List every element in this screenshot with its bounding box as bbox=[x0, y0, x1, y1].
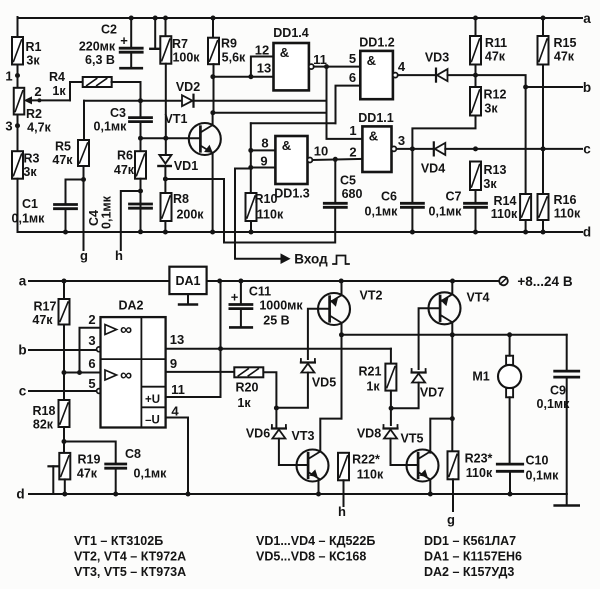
svg-text:R21: R21 bbox=[359, 365, 382, 379]
svg-text:8: 8 bbox=[261, 136, 268, 151]
svg-text:R15: R15 bbox=[554, 36, 577, 50]
svg-text:R12: R12 bbox=[484, 88, 507, 102]
svg-text:11: 11 bbox=[171, 382, 185, 397]
svg-text:R9: R9 bbox=[221, 37, 237, 51]
svg-text:R3: R3 bbox=[24, 152, 40, 166]
svg-text:VT5: VT5 bbox=[401, 432, 424, 446]
svg-text:–U: –U bbox=[145, 415, 160, 427]
svg-text:VD1...VD4 – КД522Б: VD1...VD4 – КД522Б bbox=[256, 534, 375, 548]
svg-text:g: g bbox=[447, 512, 455, 527]
svg-text:C5: C5 bbox=[340, 174, 356, 188]
svg-text:R5: R5 bbox=[55, 140, 71, 154]
svg-text:R1: R1 bbox=[26, 40, 42, 54]
svg-text:C9: C9 bbox=[550, 384, 566, 398]
svg-text:1к: 1к bbox=[366, 380, 380, 394]
svg-text:R19: R19 bbox=[78, 453, 101, 467]
svg-text:VD7: VD7 bbox=[420, 386, 444, 400]
svg-text:12: 12 bbox=[255, 43, 269, 58]
svg-text:c: c bbox=[583, 142, 591, 157]
svg-text:25 В: 25 В bbox=[263, 314, 289, 328]
svg-text:a: a bbox=[583, 11, 591, 26]
svg-text:C11: C11 bbox=[249, 285, 271, 299]
svg-text:+: + bbox=[120, 33, 128, 48]
svg-text:DD1.3: DD1.3 bbox=[274, 187, 309, 201]
svg-text:0,1мк: 0,1мк bbox=[537, 397, 571, 411]
svg-text:g: g bbox=[80, 248, 88, 263]
svg-text:+U: +U bbox=[145, 394, 160, 406]
svg-text:DD1 – К561ЛА7: DD1 – К561ЛА7 bbox=[424, 534, 516, 548]
svg-text:47к: 47к bbox=[554, 50, 575, 64]
svg-text:2: 2 bbox=[34, 84, 41, 99]
svg-text:+8...24 В: +8...24 В bbox=[517, 274, 572, 289]
svg-text:d: d bbox=[16, 487, 24, 502]
svg-text:VD2: VD2 bbox=[176, 80, 200, 94]
svg-text:VT1 – КТ3102Б: VT1 – КТ3102Б bbox=[74, 534, 163, 548]
svg-text:M1: M1 bbox=[472, 370, 489, 384]
svg-text:b: b bbox=[583, 80, 591, 95]
svg-text:c: c bbox=[19, 384, 27, 399]
svg-text:DA2 – К157УД3: DA2 – К157УД3 bbox=[424, 565, 514, 579]
svg-text:VD4: VD4 bbox=[421, 162, 445, 176]
svg-text:R20: R20 bbox=[236, 381, 259, 395]
svg-text:VD8: VD8 bbox=[357, 427, 381, 441]
svg-text:R10: R10 bbox=[255, 192, 278, 206]
svg-text:VT3: VT3 bbox=[292, 429, 315, 443]
svg-text:680: 680 bbox=[342, 187, 363, 201]
svg-text:R18: R18 bbox=[33, 404, 56, 418]
svg-text:4: 4 bbox=[171, 404, 179, 419]
svg-text:R7: R7 bbox=[172, 37, 188, 51]
svg-text:4,7к: 4,7к bbox=[27, 121, 51, 135]
svg-text:R8: R8 bbox=[173, 192, 189, 206]
svg-text:9: 9 bbox=[260, 154, 267, 169]
svg-text:DA1 – К1157ЕН6: DA1 – К1157ЕН6 bbox=[424, 550, 522, 564]
svg-text:R13: R13 bbox=[484, 163, 507, 177]
svg-text:110к: 110к bbox=[357, 468, 384, 482]
svg-text:3к: 3к bbox=[23, 165, 37, 179]
svg-text:C8: C8 bbox=[125, 447, 141, 461]
svg-text:R22*: R22* bbox=[352, 453, 380, 467]
svg-text:VD5: VD5 bbox=[312, 376, 336, 390]
svg-text:82к: 82к bbox=[33, 418, 54, 432]
svg-text:DA1: DA1 bbox=[175, 274, 200, 288]
svg-text:110к: 110к bbox=[491, 207, 518, 221]
svg-text:&: & bbox=[282, 138, 291, 153]
svg-text:110к: 110к bbox=[466, 466, 493, 480]
svg-text:110к: 110к bbox=[554, 207, 581, 221]
svg-text:R14: R14 bbox=[494, 194, 517, 208]
svg-text:5: 5 bbox=[349, 51, 356, 66]
svg-text:a: a bbox=[19, 274, 27, 289]
svg-text:47к: 47к bbox=[77, 467, 98, 481]
svg-text:R17: R17 bbox=[34, 300, 57, 314]
svg-text:9: 9 bbox=[170, 356, 177, 371]
svg-text:∞: ∞ bbox=[120, 366, 132, 385]
svg-text:h: h bbox=[115, 248, 123, 263]
svg-text:6,3 В: 6,3 В bbox=[85, 53, 115, 67]
svg-text:VT3, VT5 – КТ973А: VT3, VT5 – КТ973А bbox=[74, 565, 186, 579]
svg-text:1000мк: 1000мк bbox=[259, 299, 303, 313]
svg-text:&: & bbox=[280, 45, 289, 60]
svg-text:6: 6 bbox=[88, 356, 95, 371]
svg-text:VD6: VD6 bbox=[246, 427, 270, 441]
svg-text:13: 13 bbox=[257, 61, 271, 76]
svg-text:VT2, VT4 – КТ972А: VT2, VT4 – КТ972А bbox=[74, 550, 186, 564]
svg-text:200к: 200к bbox=[176, 208, 204, 222]
svg-text:47к: 47к bbox=[485, 50, 506, 64]
svg-text:11: 11 bbox=[313, 52, 327, 67]
svg-text:220мк: 220мк bbox=[79, 40, 116, 54]
svg-text:∞: ∞ bbox=[120, 320, 132, 339]
svg-text:1: 1 bbox=[5, 69, 12, 84]
svg-text:0,1мк: 0,1мк bbox=[94, 120, 128, 134]
svg-text:VT1: VT1 bbox=[165, 112, 188, 126]
svg-text:VD3: VD3 bbox=[425, 51, 449, 65]
svg-text:1к: 1к bbox=[237, 396, 251, 410]
svg-text:0,1мк: 0,1мк bbox=[365, 205, 399, 219]
svg-text:47к: 47к bbox=[32, 313, 53, 327]
svg-text:2: 2 bbox=[88, 312, 95, 327]
svg-text:DA2: DA2 bbox=[118, 299, 143, 313]
svg-text:R11: R11 bbox=[485, 36, 507, 50]
svg-text:3: 3 bbox=[88, 333, 95, 348]
svg-text:3к: 3к bbox=[26, 54, 40, 68]
svg-text:VT4: VT4 bbox=[467, 291, 490, 305]
svg-text:C3: C3 bbox=[110, 106, 126, 120]
svg-text:+: + bbox=[231, 290, 239, 305]
svg-text:13: 13 bbox=[170, 332, 184, 347]
svg-text:&: & bbox=[369, 128, 378, 143]
svg-text:b: b bbox=[18, 343, 26, 358]
svg-text:47к: 47к bbox=[114, 163, 135, 177]
svg-text:100к: 100к bbox=[172, 51, 200, 65]
svg-text:VD5...VD8 – КС168: VD5...VD8 – КС168 bbox=[256, 550, 366, 564]
svg-text:0,1мк: 0,1мк bbox=[134, 467, 168, 481]
svg-text:R6: R6 bbox=[117, 149, 133, 163]
svg-text:3: 3 bbox=[398, 133, 405, 148]
svg-text:0,1мк: 0,1мк bbox=[100, 195, 114, 229]
svg-text:Вход: Вход bbox=[294, 252, 328, 267]
svg-text:DD1.1: DD1.1 bbox=[358, 111, 393, 125]
svg-text:3: 3 bbox=[5, 119, 12, 134]
svg-text:2: 2 bbox=[349, 145, 356, 160]
svg-text:0,1мк: 0,1мк bbox=[12, 212, 46, 226]
svg-text:47к: 47к bbox=[52, 153, 73, 167]
svg-text:0,1мк: 0,1мк bbox=[526, 469, 560, 483]
svg-text:VD1: VD1 bbox=[174, 159, 198, 173]
svg-text:R4: R4 bbox=[49, 70, 65, 84]
svg-text:C6: C6 bbox=[381, 190, 397, 204]
svg-text:110к: 110к bbox=[257, 208, 284, 222]
svg-text:C1: C1 bbox=[22, 197, 38, 211]
svg-text:&: & bbox=[367, 53, 376, 68]
svg-text:3к: 3к bbox=[484, 102, 498, 116]
svg-text:R2: R2 bbox=[26, 107, 42, 121]
svg-text:h: h bbox=[338, 504, 346, 519]
svg-text:6: 6 bbox=[349, 70, 356, 85]
svg-text:DD1.4: DD1.4 bbox=[273, 26, 308, 40]
svg-text:0,1мк: 0,1мк bbox=[429, 205, 463, 219]
svg-text:1к: 1к bbox=[52, 84, 66, 98]
svg-text:4: 4 bbox=[398, 59, 406, 74]
svg-text:d: d bbox=[583, 225, 591, 240]
svg-text:R16: R16 bbox=[554, 193, 577, 207]
svg-text:VT2: VT2 bbox=[360, 289, 383, 303]
svg-text:10: 10 bbox=[314, 144, 328, 159]
svg-text:5,6к: 5,6к bbox=[222, 51, 246, 65]
svg-text:1: 1 bbox=[349, 123, 356, 138]
svg-text:DD1.2: DD1.2 bbox=[359, 36, 394, 50]
svg-text:5: 5 bbox=[88, 376, 95, 391]
svg-text:C2: C2 bbox=[101, 23, 117, 37]
svg-text:C7: C7 bbox=[446, 190, 462, 204]
svg-text:R23*: R23* bbox=[465, 452, 493, 466]
svg-text:3к: 3к bbox=[483, 177, 497, 191]
svg-text:C10: C10 bbox=[526, 454, 549, 468]
